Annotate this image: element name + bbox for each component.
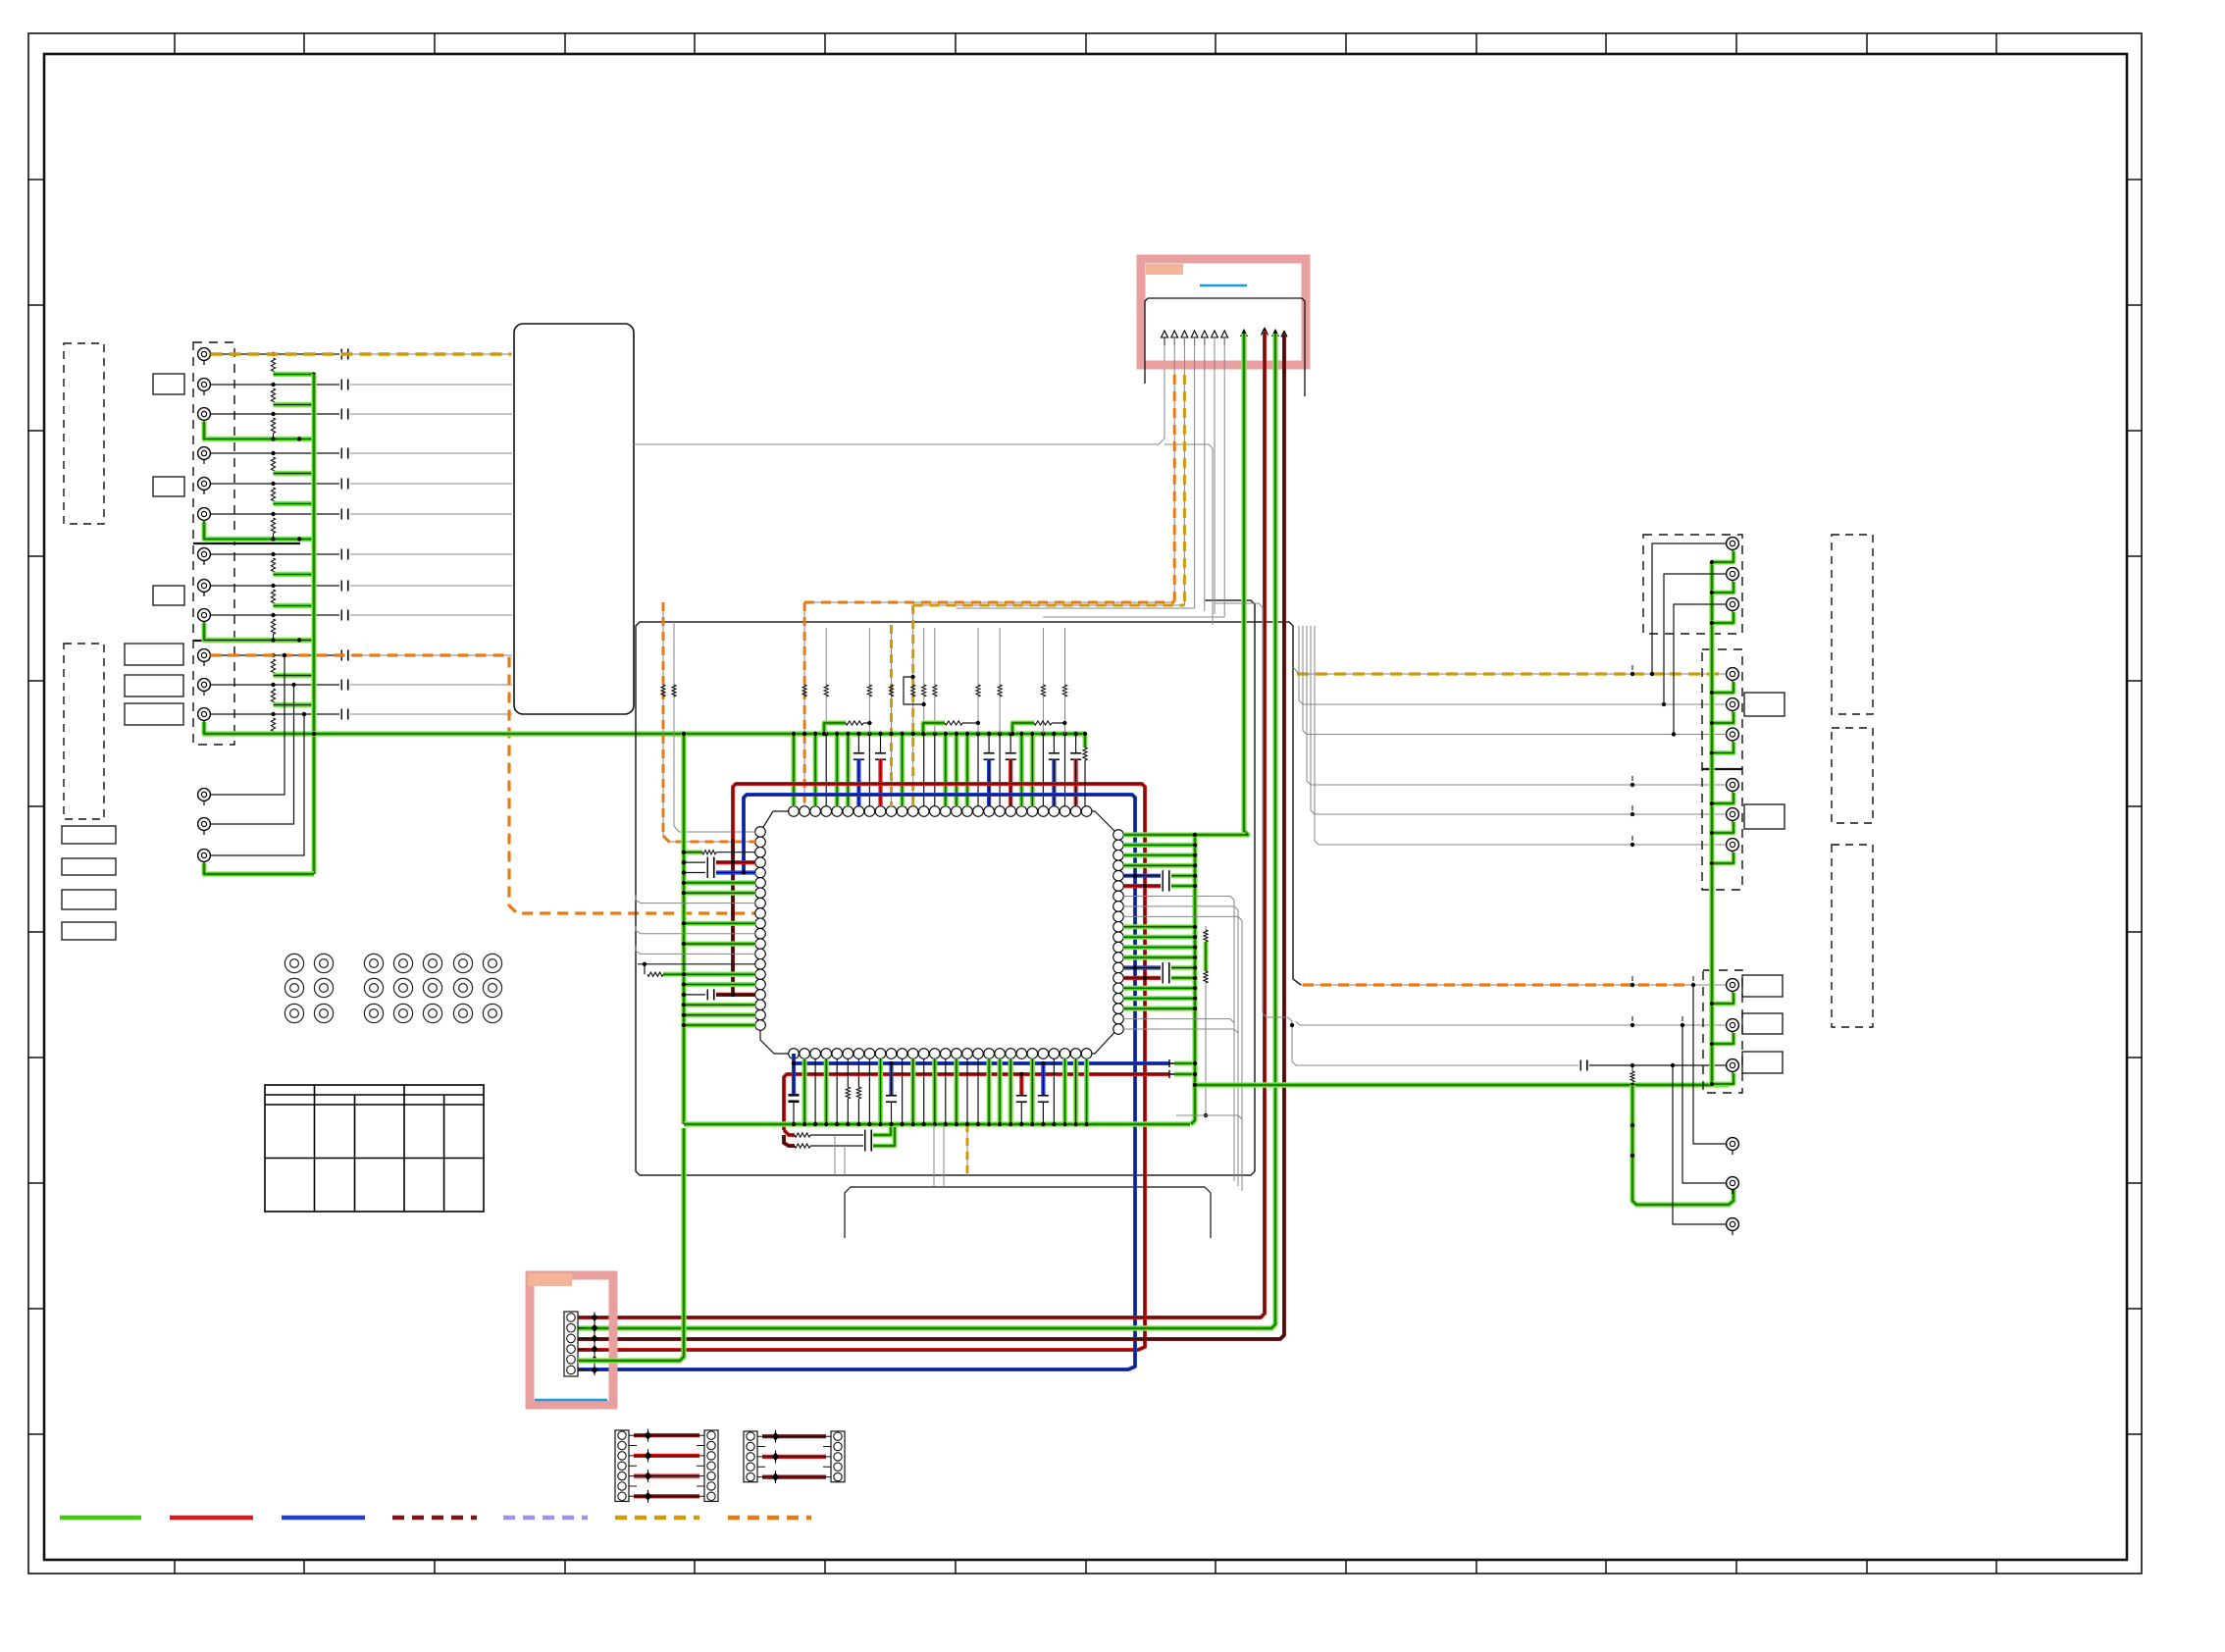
header pin wire 6 <box>1214 337 1216 345</box>
wire stub (bottom) <box>945 1058 947 1124</box>
resistor R6 <box>271 518 275 534</box>
green ground elbow row 10 <box>274 673 315 678</box>
green wire stub (top) <box>846 734 851 806</box>
junction row 12 <box>271 712 275 716</box>
capacitor stub blue (top) <box>988 734 990 753</box>
red branch 2 <box>784 1135 795 1146</box>
green ground elbow right jack <box>1712 793 1733 803</box>
wire stub with resistor above (top) <box>1042 734 1044 806</box>
RCA jack J2-1 <box>198 789 211 805</box>
RCA jack J1-9 <box>198 609 211 626</box>
revision table <box>265 1085 484 1212</box>
red bus wire (bottom) <box>784 1074 1169 1130</box>
footer connector pin <box>567 1356 576 1365</box>
RCA jack J1-11 <box>198 679 211 696</box>
component box <box>125 703 183 725</box>
green ground elbow row 11 <box>274 702 315 707</box>
component box <box>125 644 183 665</box>
green wire stub (right) <box>1123 945 1195 950</box>
dashed orange vertical wire left <box>662 602 664 836</box>
RCA jack J1-10 <box>198 649 211 666</box>
wire stub (bottom) <box>977 1058 979 1124</box>
green long wire header to right field <box>1244 334 1248 835</box>
green link to bus 2 <box>1174 1072 1195 1077</box>
junction row 2 ground <box>312 403 316 407</box>
resistor stub (bottom) <box>857 1058 859 1087</box>
component box <box>62 922 116 940</box>
wire row 9 to bundle <box>350 614 512 616</box>
RCA jack right <box>1727 1138 1739 1155</box>
RCA jack right <box>1727 728 1739 745</box>
wire row 11 to bundle <box>350 684 512 686</box>
wire header bundle 3 <box>1183 337 1185 605</box>
green wire stub (right) <box>1123 986 1195 991</box>
capacitor C5 series <box>340 479 342 490</box>
dashed orange fan wire <box>804 601 1174 603</box>
wire jack row 5 <box>211 483 340 485</box>
dashed orange wire to right connector <box>1301 984 1726 986</box>
header box corner tab <box>1146 264 1183 275</box>
wire row 6 to bundle <box>350 513 512 515</box>
wire row 5 to bundle <box>350 483 512 485</box>
green wire stub (bottom) <box>824 1058 829 1124</box>
capacitor stub red (top) <box>1009 734 1011 753</box>
capacitor C3 series <box>340 409 342 420</box>
capacitor C7 series <box>340 549 342 560</box>
RCA jack right <box>1727 538 1739 554</box>
resistor on gray vertical <box>672 685 676 697</box>
wire row 12 to bundle <box>350 713 512 715</box>
label box right <box>1742 1052 1783 1073</box>
RCA jack J1-6 <box>198 508 211 525</box>
wire header bundle 6 <box>1214 337 1216 614</box>
wire jack row 12 <box>211 713 340 715</box>
capacitor stub red (top) <box>880 734 882 753</box>
wire row 10 to bundle <box>350 654 512 656</box>
junction row 4 ground <box>312 472 316 476</box>
capacitor stub blue (top) <box>857 734 859 753</box>
wire jack row 4 <box>211 452 340 454</box>
junction row 5 <box>271 482 275 486</box>
capacitor stub blue (bottom) <box>792 1065 796 1095</box>
green elbow (bottom left) <box>873 1124 891 1135</box>
resistor R3 <box>271 418 275 434</box>
wire P2 row 1 <box>757 1435 831 1437</box>
dashed yellow vertical wire (top) <box>891 625 893 806</box>
resistor R12 <box>271 718 275 734</box>
green stub + resistor (left) <box>684 850 702 854</box>
wire gray elbow to pin <box>674 826 755 832</box>
resistor R7 <box>271 558 275 574</box>
wire lone jack 2 <box>211 685 294 824</box>
dashed yellow wire to right connector <box>1293 667 1726 674</box>
wire header fan <box>1043 616 1224 618</box>
dashed connector group box right 3 <box>1703 970 1742 1093</box>
RCA jack J1-5 <box>198 478 211 494</box>
red branch resistors (bottom left) <box>784 1130 795 1135</box>
wire header bundle 4 <box>1194 337 1196 608</box>
wire feeder to right connector <box>1303 626 1726 735</box>
blue cap left end <box>793 1063 795 1094</box>
green wire stub (right) <box>1123 843 1195 848</box>
resistor R11 <box>271 689 275 704</box>
capacitor C10 series <box>340 650 342 661</box>
green wire stub (right) <box>1123 924 1195 929</box>
wire loop outline below <box>845 1187 1211 1238</box>
gray wire of bundle inner <box>1216 603 1296 1065</box>
wire bundle to header <box>634 345 1164 444</box>
stub wire P2 <box>757 1446 765 1448</box>
wire jack row 11 <box>211 684 340 686</box>
green elbow with resistor (top group) <box>923 723 945 734</box>
component box <box>153 477 184 496</box>
footer connector pin <box>567 1323 576 1332</box>
green ground wire lone jack 3 <box>204 863 314 874</box>
header pin wire 4 <box>1194 337 1196 345</box>
wire right jack 3 loop <box>1674 604 1726 735</box>
black wire with branch (left) <box>638 963 755 965</box>
green wire stub (bottom) <box>997 1058 1002 1124</box>
wire to right connector row 1086 with capacitor <box>1296 1064 1578 1066</box>
header pin wire 2 <box>1173 337 1175 345</box>
wire jack row 2 <box>211 384 340 386</box>
green wire stub (right) <box>1123 1006 1195 1010</box>
IC U1 bottom pin row <box>789 1049 1092 1059</box>
junction row 7 <box>271 552 275 556</box>
header pin wire 7 <box>1223 337 1225 345</box>
footer box corner tab <box>528 1273 572 1286</box>
junction row 5 ground <box>312 502 316 506</box>
wire jack row 3 <box>211 413 340 415</box>
off-page header box (pink) <box>1141 259 1306 365</box>
junction row 1 <box>271 352 275 356</box>
green wire stub (top) <box>791 734 796 806</box>
wire from enclosure edge (left) <box>636 896 755 903</box>
dashed yellow stub (bottom) <box>966 1058 968 1124</box>
resistor link vertical (right) <box>1205 926 1207 930</box>
green wire stub (left) <box>684 1022 755 1027</box>
green stub + capacitor + blue (left) <box>684 872 705 874</box>
wire P1 row 3 <box>629 1455 704 1457</box>
connector strip P1 right <box>704 1430 718 1501</box>
green ground elbow right jack <box>1712 582 1733 593</box>
stub wire P1 <box>629 1445 637 1447</box>
blue bus end mark <box>1169 1059 1174 1067</box>
wire row 8 to bundle <box>350 585 512 587</box>
green stub + capacitor + red (left) <box>684 861 705 863</box>
header pin wire green B <box>1271 329 1279 336</box>
capacitor C8 series <box>340 581 342 592</box>
RCA jack right <box>1727 1177 1739 1194</box>
wire lone jack right 1 <box>1693 985 1726 1144</box>
wire feeder to right connector <box>1315 626 1726 845</box>
wire row 2 to bundle <box>350 384 512 386</box>
connector divider right <box>1702 768 1742 770</box>
IC U1 left pin column <box>755 827 766 1031</box>
junction row 10 ground <box>312 674 316 678</box>
RCA jack right <box>1727 1059 1739 1076</box>
via pad grid cluster 1 <box>285 954 333 1022</box>
dashed net wire row 1 dark yellow <box>211 352 512 355</box>
green wire stub (bottom) <box>878 1058 883 1124</box>
green wire stub (bottom) <box>1030 1058 1035 1124</box>
dashed orange stub (top) <box>803 602 805 806</box>
connector strip P2 left <box>744 1431 757 1482</box>
green wire stub (left) <box>684 1003 755 1007</box>
component box <box>125 675 183 697</box>
wire feeder to right connector <box>1307 626 1726 785</box>
capacitor C9 series <box>340 610 342 621</box>
green ground bus vertical left <box>311 374 316 874</box>
green ground elbow row 7 <box>274 572 315 577</box>
wire stub with resistor above (top) <box>825 734 827 806</box>
junction row 8 ground <box>312 604 316 608</box>
wire from enclosure edge (left) <box>636 926 755 934</box>
footer connector pin <box>567 1345 576 1354</box>
green elbow 2 (bottom) <box>873 1124 895 1146</box>
wire right jack 1 loop <box>1652 543 1726 674</box>
wire header bundle 7 <box>1223 337 1225 617</box>
green link to bus <box>1174 1061 1195 1066</box>
junction row 9 <box>271 613 275 617</box>
green bus wire (bottom) <box>684 1121 1190 1126</box>
RCA jack right <box>1727 668 1739 685</box>
dashed net wire row 10 orange <box>211 655 758 913</box>
dashed box far right 2 <box>1832 728 1873 823</box>
blue + capacitor + green (right) <box>1123 874 1161 878</box>
green wire stub (left) <box>684 880 755 885</box>
green wire stub (bottom) <box>986 1058 991 1124</box>
resistor on orange vertical <box>661 685 665 697</box>
red bus wire around IC <box>578 784 1145 1350</box>
wire stub (bottom) <box>836 1058 838 1124</box>
green ground elbow row 8 <box>274 603 315 608</box>
capacitor C4 series <box>340 448 342 459</box>
resistor R10 <box>271 659 275 675</box>
wire P1 row 7 <box>629 1495 704 1497</box>
green ground elbow right jack <box>1712 682 1733 693</box>
legend wire sample dark yellow dashed <box>615 1516 699 1521</box>
RCA jack right <box>1727 698 1739 715</box>
capacitor C1 series <box>340 349 342 360</box>
dashed connector group box right 1 <box>1643 535 1742 634</box>
footer connector pin <box>567 1334 576 1343</box>
green ground wire row 9 <box>204 623 314 641</box>
dashed box far right 1 <box>1832 535 1873 714</box>
wire to right connector row 1045 <box>1296 1021 1726 1025</box>
capacitor C2 series <box>340 380 342 390</box>
RCA jack J1-2 <box>198 379 211 395</box>
wire jack row 6 <box>211 513 340 515</box>
green ground elbow row 2 <box>274 402 315 407</box>
wires descending below bottom bus <box>834 1135 836 1175</box>
label box right <box>1742 1013 1783 1034</box>
green ground elbow right jack <box>1712 612 1733 623</box>
component box <box>62 826 116 844</box>
wire header fan <box>957 607 1195 609</box>
green wire stub (top) <box>954 734 958 806</box>
green ground elbow right jack <box>1712 712 1733 723</box>
wire feeder to right connector <box>1311 626 1726 814</box>
resistor stub (bottom) <box>847 1058 849 1087</box>
component box <box>62 858 116 875</box>
green ground elbow right jack <box>1712 1073 1733 1084</box>
label box right <box>1742 975 1783 997</box>
header hyperlink line <box>1200 284 1247 287</box>
junction row 7 ground <box>312 573 316 577</box>
green ground elbow row 5 <box>274 501 315 506</box>
wire stub with resistor above (top) <box>923 734 925 806</box>
footer pin stub wires <box>578 1316 588 1318</box>
capacitor C12 series <box>340 709 342 720</box>
RCA jack right <box>1727 1218 1739 1235</box>
wire feeder to right connector <box>1299 626 1726 704</box>
green wire stub (left) <box>684 921 755 926</box>
green wire stub (top) <box>900 734 905 806</box>
green wire bottom box row5 <box>578 1128 684 1361</box>
wire row 7 to bundle <box>350 553 512 555</box>
green bus vertical right connectors <box>1709 562 1714 1085</box>
red long wire header to bottom box row3 <box>578 335 1284 1339</box>
green ground elbow row 1 <box>274 372 315 377</box>
green wire stub (top) <box>1019 734 1024 806</box>
wire header bundle 5 <box>1204 337 1206 611</box>
green long wire header to bottom box row2 <box>578 334 1275 1328</box>
wire jack row 10 <box>211 654 340 656</box>
green wire stub (top) <box>835 734 840 806</box>
header pin wire 5 <box>1204 337 1206 345</box>
wire stub (bottom) <box>1053 1058 1055 1124</box>
dashed connector group box right 2 <box>1702 649 1742 890</box>
dashed connector group box J1 <box>193 342 234 745</box>
junction row 1 ground <box>312 373 316 377</box>
green ground wire row 3 <box>204 422 314 439</box>
footer connector pin <box>567 1314 576 1322</box>
legend wire sample green <box>60 1516 141 1521</box>
wire P1 row 1 <box>629 1434 704 1436</box>
wire stub with resistor above (top) <box>977 734 979 806</box>
footer connector strip <box>564 1312 578 1376</box>
RCA jack J1-1 <box>198 348 211 365</box>
footer connector pin <box>567 1366 576 1374</box>
green wire stub (bottom) <box>1009 1058 1013 1124</box>
component box <box>153 374 184 394</box>
wire lone jack right 3 <box>1673 1065 1726 1224</box>
label box right <box>1744 804 1785 829</box>
RCA jack J1-8 <box>198 580 211 596</box>
RCA jack right <box>1727 568 1739 585</box>
RCA jack J2-2 <box>198 818 211 835</box>
dark red left vertical overlay <box>731 839 735 995</box>
red + capacitor + green (right) <box>1123 884 1161 888</box>
wire stub with resistor above (top) <box>934 734 936 806</box>
junction dots on green bus <box>1630 1083 1634 1087</box>
header pin wire 1 <box>1164 337 1165 345</box>
wire jack row 1 <box>211 353 340 355</box>
green ground elbow right jack <box>1712 1033 1733 1044</box>
junction row 3 ground <box>271 437 275 440</box>
module enclosure bundle outline <box>636 600 1301 1175</box>
header pin wire red A <box>1262 328 1268 337</box>
green wire stub (bottom) <box>1073 1058 1078 1124</box>
green ground wire row 6 <box>204 522 314 540</box>
junction row 11 ground <box>312 703 316 707</box>
red long wire header to bottom box row1 <box>578 332 1265 1317</box>
dashed box far right 3 <box>1832 845 1873 1027</box>
green vertical bus wire (right of IC) <box>1191 835 1195 1124</box>
green ground bus long horizontal <box>204 722 1085 734</box>
component box <box>153 586 184 605</box>
legend wire sample orange dashed <box>728 1516 811 1521</box>
green wire stub (right) <box>1123 852 1195 857</box>
component box <box>62 890 116 909</box>
junction row 9 ground <box>271 638 275 642</box>
resistor R5 <box>271 488 275 503</box>
junction lone jack 1 <box>283 653 286 657</box>
wire jack row 9 <box>211 614 340 616</box>
wire from enclosure edge (left) <box>636 946 755 954</box>
green wire stub (top) <box>943 734 948 806</box>
capacitor stub red (bottom) <box>1019 1076 1023 1095</box>
legend wire sample red <box>170 1516 253 1521</box>
green ground elbow row 4 <box>274 471 315 476</box>
RCA jack J1-12 <box>198 708 211 725</box>
green wire stub (left) <box>684 972 755 977</box>
green wire stub (right) <box>1123 955 1195 959</box>
label box right <box>1744 693 1785 716</box>
resistor R2 <box>271 388 275 404</box>
resistor on green branch <box>1631 1065 1633 1071</box>
wire lone jack 1 <box>211 655 285 795</box>
green ground elbow right jack <box>1712 551 1733 562</box>
IC U1 right pin column <box>1113 830 1124 1035</box>
green wire stub (right) <box>1123 996 1195 1001</box>
wire stub (bottom) <box>868 1058 870 1124</box>
wire jack row 8 <box>211 585 340 587</box>
green wire stub (right) <box>1123 863 1195 868</box>
stub wire P1 <box>629 1485 637 1487</box>
wire stub with resistor above (top) <box>868 734 870 806</box>
off-page footer box (pink) <box>530 1275 613 1405</box>
junction row 11 <box>271 683 275 687</box>
wire stub (bottom) <box>814 1058 816 1124</box>
junction row 2 <box>271 383 275 387</box>
wire stub (bottom) <box>902 1058 904 1124</box>
green wire stub (left) <box>684 982 755 987</box>
green wire stub (top) <box>1030 734 1035 806</box>
RCA jack J1-3 <box>198 408 211 425</box>
green corner top (right) <box>1123 832 1246 837</box>
wire stub to feeder (right) <box>1123 1029 1238 1186</box>
dashed enclosure box left upper <box>64 343 104 524</box>
stub wire P1 <box>629 1465 637 1467</box>
junction row 3 <box>271 412 275 416</box>
green wire stub (bottom) <box>954 1058 958 1124</box>
capacitor stub red (top) <box>1075 734 1077 753</box>
green vertical bus wire (left of IC) <box>681 734 686 1124</box>
dashed enclosure box left lower <box>64 644 104 819</box>
wire stub to feeder (right) <box>1123 906 1238 1186</box>
green wire stub (bottom) <box>1062 1058 1067 1124</box>
connector strip P2 right <box>831 1431 845 1482</box>
green elbow with resistor (top group) <box>1012 723 1034 734</box>
junction row 4 <box>271 451 275 455</box>
dashed yellow vertical wire (top) <box>912 605 914 806</box>
wire stub to feeder (right) <box>1123 897 1234 1182</box>
RCA jack right <box>1727 808 1739 825</box>
header pin wire red B <box>1281 331 1287 338</box>
red + capacitor + green (right) <box>1123 976 1161 980</box>
